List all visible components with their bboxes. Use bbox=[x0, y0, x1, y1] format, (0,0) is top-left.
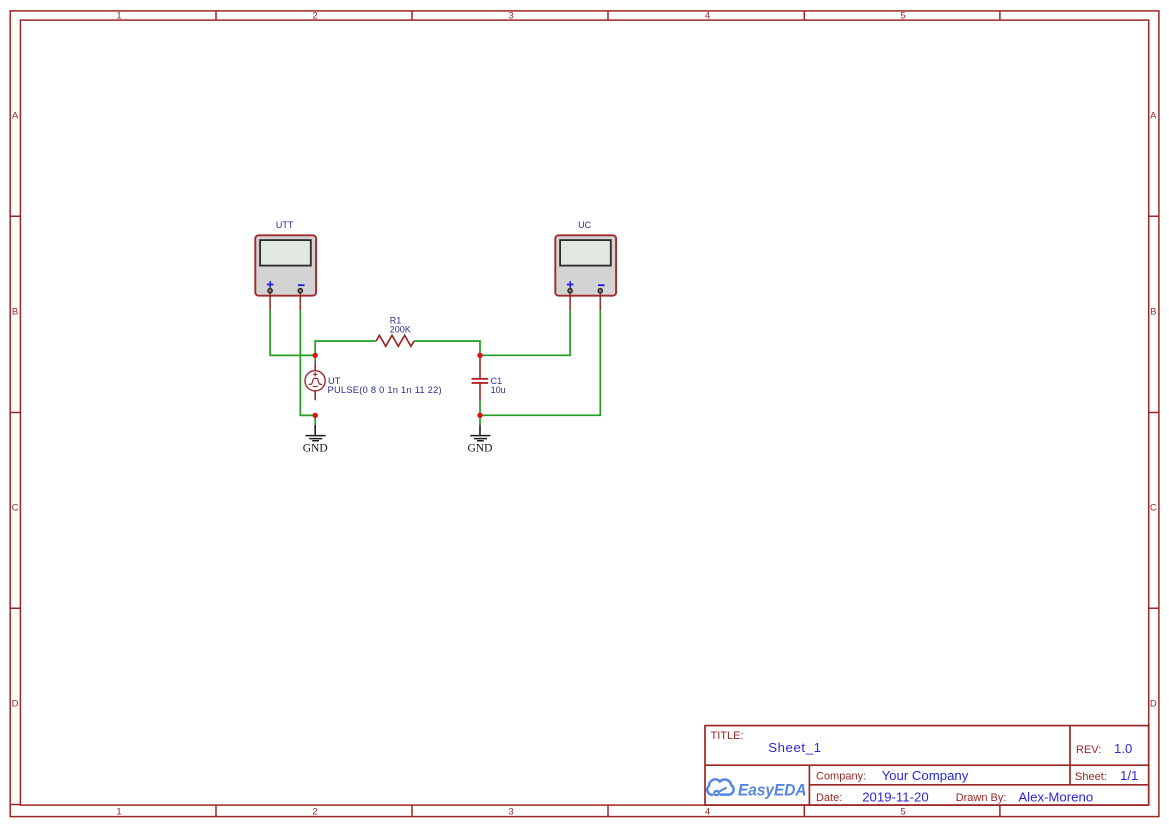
svg-text:A: A bbox=[1150, 110, 1157, 121]
wire node D to UC- bbox=[480, 310, 600, 415]
svg-text:REV:: REV: bbox=[1076, 744, 1101, 756]
junction node A bbox=[313, 353, 318, 358]
svg-text:200K: 200K bbox=[390, 325, 411, 335]
svg-text:Alex-Moreno: Alex-Moreno bbox=[1018, 789, 1093, 804]
wire node B to left ground bbox=[314, 415, 316, 424]
svg-text:4: 4 bbox=[705, 11, 710, 22]
wire UTT- to node B bbox=[300, 310, 315, 415]
wire node D to right ground bbox=[479, 415, 481, 425]
svg-text:B: B bbox=[12, 307, 18, 318]
svg-text:1: 1 bbox=[116, 807, 121, 818]
ground GND right bbox=[468, 425, 493, 455]
svg-text:EasyEDA: EasyEDA bbox=[738, 781, 807, 800]
svg-text:B: B bbox=[1150, 307, 1156, 318]
junction node B bbox=[313, 413, 318, 418]
svg-text:UC: UC bbox=[578, 220, 591, 230]
resistor R1 bbox=[376, 335, 414, 346]
svg-text:GND: GND bbox=[303, 443, 328, 455]
svg-text:Company:: Company: bbox=[816, 771, 866, 783]
EasyEDA logo bbox=[707, 779, 806, 799]
svg-text:2019-11-20: 2019-11-20 bbox=[862, 789, 928, 804]
wire node A up to R1 left bbox=[315, 341, 376, 355]
svg-text:5: 5 bbox=[900, 807, 905, 818]
svg-text:PULSE(0 8 0 1n 1n 11 22): PULSE(0 8 0 1n 1n 11 22) bbox=[328, 385, 442, 395]
svg-text:Your Company: Your Company bbox=[882, 768, 969, 783]
svg-text:1.0: 1.0 bbox=[1114, 741, 1132, 756]
junction node D bbox=[477, 413, 482, 418]
svg-text:Sheet:: Sheet: bbox=[1075, 771, 1107, 783]
wire UTT+ to node A bbox=[270, 310, 315, 355]
svg-text:3: 3 bbox=[508, 11, 513, 22]
svg-text:2: 2 bbox=[312, 11, 317, 22]
svg-text:D: D bbox=[1150, 699, 1157, 710]
svg-text:A: A bbox=[12, 110, 19, 121]
wire C1 bottom to node D bbox=[479, 400, 481, 415]
svg-text:3: 3 bbox=[508, 807, 513, 818]
svg-text:5: 5 bbox=[900, 11, 905, 22]
svg-text:10u: 10u bbox=[491, 385, 506, 395]
svg-text:Date:: Date: bbox=[816, 792, 842, 804]
voltmeter UTT bbox=[255, 235, 316, 310]
junction node C bbox=[477, 353, 482, 358]
wire node A to UT top bbox=[314, 355, 316, 361]
voltage source UT bbox=[305, 362, 325, 401]
ground GND left bbox=[303, 425, 328, 455]
svg-text:1/1: 1/1 bbox=[1120, 768, 1138, 783]
capacitor C1 bbox=[472, 355, 489, 400]
svg-text:TITLE:: TITLE: bbox=[711, 730, 744, 742]
svg-text:C: C bbox=[1150, 503, 1157, 514]
svg-text:C: C bbox=[12, 503, 19, 514]
svg-text:Drawn By:: Drawn By: bbox=[956, 792, 1007, 804]
svg-text:UTT: UTT bbox=[276, 220, 294, 230]
voltmeter UC bbox=[555, 235, 616, 310]
wire node C to UC+ bbox=[480, 310, 570, 355]
wire R1 right to node C bbox=[414, 341, 480, 355]
svg-text:4: 4 bbox=[705, 807, 710, 818]
svg-text:GND: GND bbox=[468, 443, 493, 455]
svg-text:1: 1 bbox=[116, 11, 121, 22]
svg-text:D: D bbox=[12, 699, 19, 710]
svg-text:Sheet_1: Sheet_1 bbox=[768, 740, 821, 755]
svg-text:2: 2 bbox=[312, 807, 317, 818]
